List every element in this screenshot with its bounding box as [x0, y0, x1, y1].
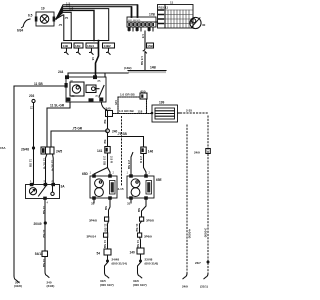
wire strip to fusebox — [156, 21, 158, 23]
seat A terminal tr — [108, 174, 112, 177]
svg-text:54/13: 54/13 — [35, 252, 43, 256]
node AVM label — [17, 14, 33, 33]
wire into left switch pin1 — [33, 148, 35, 185]
seat heater B pad dot — [136, 181, 138, 183]
connector 146 above seat B — [141, 147, 146, 154]
heater element inner box — [155, 108, 175, 119]
connector 54/13 box — [42, 251, 48, 257]
wire code small mark — [30, 106, 34, 110]
wire lead-in curve top left — [22, 19, 30, 28]
seat heater B pad circle 2 — [131, 188, 140, 197]
branch wire to seat B — [108, 137, 144, 148]
switch right element — [52, 186, 54, 192]
horn H1 right terminal — [53, 17, 56, 22]
connector 3P6/9 — [138, 233, 142, 237]
ground lead end of long left wire — [14, 276, 19, 282]
seat A long wire — [109, 200, 111, 217]
svg-text:(14B): (14B) — [124, 66, 132, 70]
svg-text:11 SB: 11 SB — [29, 159, 33, 168]
svg-text:(000 31/7): (000 31/7) — [133, 283, 147, 287]
connector 14B2 label box — [103, 43, 115, 48]
wire code — [103, 240, 107, 249]
svg-text:4-0000: 4-0000 — [187, 229, 191, 239]
svg-text:6/34: 6/34 — [17, 29, 23, 33]
connector on pin87 wire — [106, 111, 113, 117]
svg-text:2.5 SB: 2.5 SB — [127, 160, 131, 170]
svg-text:3P6/14: 3P6/14 — [87, 235, 97, 239]
svg-text:(000 31/7): (000 31/7) — [100, 283, 114, 287]
wire code above junction — [103, 120, 107, 125]
svg-text:11 SB: 11 SB — [34, 82, 43, 86]
junction dot on divider C — [207, 261, 210, 264]
connector 3P4/8 — [105, 217, 109, 221]
svg-text:.75: .75 — [64, 16, 69, 20]
svg-text:11 SB: 11 SB — [42, 230, 46, 239]
relay feed wire label — [34, 82, 43, 86]
splice 203 label — [29, 94, 35, 98]
svg-text:14B: 14B — [63, 44, 69, 48]
dotted option wire lower — [113, 113, 152, 115]
switch motor arrow — [31, 189, 35, 193]
svg-text:2.5: 2.5 — [69, 8, 74, 12]
svg-text:1.0 GR-SB: 1.0 GR-SB — [120, 93, 136, 97]
relay middle element — [86, 85, 96, 93]
wire code — [103, 224, 107, 233]
switch pin numbers — [30, 179, 53, 205]
junction node 240 — [106, 129, 110, 133]
wire code seat B long — [137, 208, 141, 213]
seat heater A resistor — [110, 181, 116, 195]
wire fusebox to ignition — [190, 21, 193, 23]
switch 24 designator — [61, 185, 66, 189]
seat B ground stub — [130, 200, 132, 203]
connector strip designator 17B — [149, 13, 156, 17]
svg-text:20/49: 20/49 — [34, 222, 42, 226]
seat B terminal tl — [129, 174, 133, 177]
svg-text:2.5 R: 2.5 R — [109, 156, 113, 164]
svg-text:2-35: 2-35 — [186, 109, 192, 113]
section divider dashed line B — [186, 125, 188, 274]
fuse box grid columns — [168, 10, 189, 28]
wire fan line 3 — [56, 9, 109, 41]
svg-text:2.5 SB: 2.5 SB — [102, 156, 106, 166]
svg-text:11 SL-GR: 11 SL-GR — [50, 104, 65, 108]
connector 54 box A — [104, 249, 111, 255]
connector 14B1 label box — [86, 43, 98, 48]
wire code below splice — [42, 206, 46, 215]
svg-text:11 SL-B: 11 SL-B — [42, 158, 46, 170]
connector 15B label box — [147, 43, 154, 48]
svg-text:14B: 14B — [75, 44, 81, 48]
relay terminal left-mid — [65, 83, 68, 88]
heater element 199 designator — [159, 101, 165, 105]
connector 141 label — [97, 149, 103, 153]
wire fan line 6 — [56, 15, 64, 41]
wire fan line 2 — [56, 7, 132, 19]
svg-text:115: 115 — [114, 100, 118, 105]
connector hook 4 — [107, 48, 111, 54]
switch motor circle — [29, 188, 36, 195]
wire connector146 to seatB pin2 — [144, 154, 147, 177]
seat A terminal tl — [92, 174, 96, 177]
connector strip pin cells — [128, 23, 154, 26]
seat B long wire — [142, 200, 147, 217]
relay pin85 wire label — [50, 104, 65, 108]
svg-text:1.0 GR-SB: 1.0 GR-SB — [119, 109, 135, 113]
svg-text:3P4/8: 3P4/8 — [89, 219, 97, 223]
connector strip mid line — [127, 21, 156, 23]
connector 140 box B — [137, 248, 144, 254]
end label seat A — [100, 279, 114, 287]
seat B terminal tr — [144, 174, 148, 177]
comb designator — [124, 66, 157, 71]
horn H1 symbol circle — [40, 15, 49, 24]
svg-text:118: 118 — [138, 110, 143, 114]
svg-text:11 SB: 11 SB — [42, 206, 46, 215]
seat B terminal br — [144, 196, 148, 199]
svg-text:240: 240 — [106, 107, 111, 111]
relay switch contact — [99, 86, 104, 98]
horn H1 left terminal — [35, 17, 38, 22]
svg-text:11: 11 — [30, 106, 34, 110]
svg-text:(31/1): (31/1) — [200, 285, 208, 289]
svg-text:R15 11: R15 11 — [159, 6, 169, 10]
wire stub to seatB pin1 — [131, 153, 133, 177]
seat B ground stub label — [127, 202, 131, 206]
long GR wire — [51, 131, 107, 147]
seat A terminal bl — [92, 196, 96, 199]
divider C ref text — [204, 228, 208, 238]
wire code along x145 — [140, 56, 144, 66]
svg-text:4-15: 4-15 — [118, 187, 124, 191]
section divider dashed line C — [207, 116, 209, 274]
wire fan line 1 thick drop — [137, 5, 139, 17]
connector strip 17B box — [127, 17, 156, 27]
connector strip pin marks — [128, 28, 131, 31]
wire to end — [45, 257, 49, 278]
svg-text:24/5: 24/5 — [56, 150, 62, 154]
svg-text:15A: 15A — [0, 146, 6, 150]
wire code seatB pin1 — [127, 160, 131, 170]
switch terminal t2 — [44, 183, 48, 186]
wire end seat A — [105, 263, 109, 278]
svg-text:11: 11 — [170, 1, 174, 5]
switch terminal t3 — [51, 183, 55, 186]
wire into left switch pin2 — [46, 154, 48, 185]
seat A ground stub — [93, 200, 95, 203]
seat A ground stub label — [91, 202, 95, 206]
wire code below 54-13 — [42, 259, 46, 268]
heater element coil lines — [155, 111, 175, 116]
end label seat B — [133, 279, 147, 287]
wire into left switch pin3 — [52, 154, 55, 185]
connector 17B0 label — [56, 150, 62, 154]
connector strip dividers — [131, 22, 151, 27]
junction node label — [112, 130, 118, 134]
relay coil frame — [70, 82, 84, 96]
svg-text:11 SB: 11 SB — [42, 259, 46, 268]
wire code — [136, 240, 140, 249]
svg-text:3P5/8: 3P5/8 — [146, 219, 154, 223]
switch right circle — [51, 192, 54, 195]
heater right lead — [178, 112, 181, 114]
svg-text:2.5 R: 2.5 R — [139, 156, 143, 164]
heater element outer box — [152, 105, 178, 122]
svg-text:14B2: 14B2 — [104, 44, 112, 48]
branch wire label — [117, 132, 127, 136]
seat heater A pad circle 1 — [95, 179, 104, 188]
svg-text:203: 203 — [29, 94, 35, 98]
wire code above 15B — [141, 34, 145, 39]
seat A pin numbers — [90, 171, 115, 175]
divider B end label — [183, 274, 187, 279]
junction 24/48 label — [112, 258, 127, 266]
wire fan line 1 — [56, 5, 138, 19]
svg-text:20/48: 20/48 — [21, 148, 29, 152]
svg-text:(000 31/6): (000 31/6) — [145, 262, 159, 266]
distribution bar — [64, 40, 109, 42]
svg-text:31: 31 — [127, 202, 131, 206]
svg-text:199: 199 — [159, 101, 165, 105]
relay feed wire from left — [14, 85, 66, 87]
connector hook 1 — [65, 48, 69, 54]
horn H1 box — [36, 12, 54, 26]
seat heater B pad circle 1 — [131, 179, 140, 188]
relay 244 box — [66, 77, 106, 102]
junction dot 23/48 — [140, 254, 142, 260]
svg-text:65E: 65E — [156, 178, 162, 182]
option connector box — [140, 93, 147, 99]
end label — [47, 281, 55, 289]
svg-text:11 SB: 11 SB — [135, 224, 139, 233]
seat heater A pad circle 2 — [95, 188, 104, 197]
left edge ref text — [0, 146, 6, 150]
horn H1 designator 19 — [41, 7, 45, 11]
wire below 3P4/8 — [108, 221, 109, 233]
terminal comb row — [128, 70, 166, 72]
inline connector row label 20/48 — [21, 148, 29, 152]
divider A ref text bottom — [118, 187, 124, 191]
svg-text:(000 31/14): (000 31/14) — [112, 262, 127, 266]
seat heater A box — [90, 176, 117, 198]
svg-text:6.5: 6.5 — [28, 14, 33, 18]
fuse box 11 outer — [158, 5, 194, 29]
relay pin87 wire — [101, 102, 107, 129]
long GR wire label — [72, 127, 83, 131]
svg-text:650: 650 — [141, 90, 146, 94]
connector 3P5/8 — [140, 217, 144, 221]
svg-text:3-0000: 3-0000 — [204, 228, 208, 238]
connector 54/13 label — [35, 252, 43, 256]
splice dot 20/49 — [44, 221, 47, 224]
svg-text:24/9: 24/9 — [182, 285, 188, 289]
relay coil inner — [76, 86, 79, 89]
divider C end label — [204, 274, 208, 279]
connector hook 2 — [77, 48, 81, 54]
wire fork to seatA pin1 — [94, 168, 108, 177]
wire code seatA pin1 — [102, 156, 106, 166]
ignition switch circle — [190, 17, 201, 28]
seat heater B box — [127, 176, 154, 198]
relay pin numbers — [70, 79, 101, 98]
svg-text:16: 16 — [91, 57, 95, 61]
wire below 3P6/14 — [107, 237, 109, 249]
wire code seatA pin2 — [109, 156, 113, 164]
wire fan line 2 thick drop — [131, 7, 133, 17]
svg-text:11 SL-R: 11 SL-R — [50, 160, 54, 172]
wire below 3P6/9 — [140, 237, 141, 248]
wire code x33 — [29, 159, 33, 168]
relay terminal top-left — [65, 75, 69, 79]
heater left terminal — [151, 112, 154, 115]
wire code seat A long — [104, 206, 108, 211]
splice 203 circle — [32, 99, 35, 102]
svg-text:1.5: 1.5 — [141, 34, 145, 39]
svg-text:23/7: 23/7 — [195, 261, 201, 265]
wire below 3P5/8 — [140, 221, 142, 233]
connector strip pin stubs — [129, 27, 153, 31]
svg-text:65D: 65D — [82, 172, 89, 176]
wire code seatB pin2 — [139, 156, 143, 164]
svg-text:146: 146 — [148, 150, 154, 154]
wire code x47 — [42, 158, 46, 170]
relay middle link — [96, 88, 99, 90]
junction 23/48 label — [145, 258, 159, 266]
svg-text:(24/3): (24/3) — [47, 284, 55, 288]
ignition label 30 — [202, 23, 206, 27]
ignition switch inner — [192, 19, 196, 23]
svg-text:141: 141 — [97, 149, 103, 153]
connector 3P6/14 — [104, 233, 108, 237]
svg-text:15B: 15B — [147, 44, 153, 48]
wire trunk to relay — [96, 41, 99, 78]
svg-text:17B: 17B — [149, 13, 156, 17]
section divider dashed line A — [121, 117, 123, 187]
relay 244 designator — [58, 70, 64, 74]
fuse box left column marks — [159, 10, 164, 24]
svg-text:14B1: 14B1 — [87, 44, 95, 48]
switch terminal t1 — [30, 183, 34, 186]
seat heater 65E designator — [156, 178, 162, 182]
ground end label — [14, 281, 22, 289]
connector 15B on wire from strip — [144, 31, 146, 48]
switch output wire down — [44, 200, 46, 251]
svg-text:(31/8): (31/8) — [14, 284, 22, 288]
splice dot on wire x33 — [32, 146, 35, 149]
fuse box divider — [164, 5, 166, 29]
seat A terminal br — [108, 196, 112, 199]
connector 17B0 box — [41, 147, 54, 154]
relay pin85 wire — [47, 102, 70, 147]
wire end seat B — [138, 263, 142, 278]
wire connector141 to seatA pin2 — [108, 153, 111, 176]
relay coil circle — [72, 85, 80, 93]
connector hook 3 — [90, 48, 94, 54]
fuse box header text — [159, 1, 174, 10]
svg-text:30: 30 — [202, 23, 206, 27]
relay middle contact circle — [92, 87, 96, 91]
fan wire code labels — [58, 1, 74, 27]
seat heater B resistor — [146, 181, 152, 195]
dotted option wire upper — [118, 96, 140, 98]
dotted option drop — [146, 99, 148, 114]
long left wire down — [13, 86, 15, 276]
seat B terminal bl — [129, 196, 133, 199]
svg-text:3A: 3A — [61, 185, 66, 189]
relay terminal bottom-left — [67, 98, 71, 102]
switch 24 box — [26, 185, 60, 199]
connector 141 above seat A — [105, 147, 110, 154]
wire 15B continues — [144, 53, 146, 71]
terminal comb teeth — [129, 71, 165, 73]
svg-text:3P6/9: 3P6/9 — [144, 235, 152, 239]
wire fan line 5 — [56, 12, 71, 40]
horn H1 cross — [42, 16, 48, 22]
relay terminal bottom-centre — [89, 98, 94, 101]
ignition switch lever — [191, 18, 200, 28]
bus wire above relay — [68, 73, 128, 77]
svg-text:54: 54 — [97, 252, 101, 256]
junction dot 24/48 — [107, 255, 109, 260]
divider B ref text — [187, 229, 191, 239]
seat B pin numbers — [127, 171, 151, 175]
svg-text:.75: .75 — [58, 23, 63, 27]
option connector pin mark — [141, 94, 143, 97]
seat heater A pad dot — [99, 181, 101, 183]
switch contact diagonal — [39, 187, 46, 197]
wire fan line 4 — [56, 10, 94, 40]
splice 20/49 label — [34, 222, 42, 226]
connector strip top text — [128, 20, 142, 22]
svg-text:14B: 14B — [150, 66, 157, 70]
connector on divider C — [206, 149, 211, 154]
wire code x55 — [50, 160, 54, 172]
fuse box grid rows — [165, 10, 193, 24]
connector 146 label — [148, 150, 154, 154]
wire splice down — [33, 103, 35, 148]
dashed wire to divider — [181, 112, 209, 114]
connector 14B label box 1 — [62, 43, 72, 48]
trunk wire code — [91, 57, 95, 61]
connector 14B label box 2 — [74, 43, 83, 48]
svg-text:140: 140 — [130, 251, 136, 255]
svg-text:19: 19 — [41, 7, 45, 11]
svg-text:1.5 SB: 1.5 SB — [140, 56, 144, 66]
svg-text:.75 SB: .75 SB — [117, 132, 127, 136]
relay terminal bottom-right — [99, 98, 103, 102]
relay terminal top-mid — [93, 75, 97, 79]
wire code — [135, 224, 139, 233]
svg-text:11 SB: 11 SB — [103, 240, 107, 249]
svg-text:MPL BB NPL: MPL BB NPL — [128, 20, 142, 22]
switch bottom terminal — [43, 197, 47, 200]
svg-text:.75 GR: .75 GR — [72, 127, 83, 131]
wire junction down — [107, 133, 109, 147]
svg-text:11 SB: 11 SB — [103, 224, 107, 233]
connector 15B hook — [143, 48, 146, 53]
dotted option left leg — [117, 97, 119, 114]
svg-text:24/9: 24/9 — [194, 151, 200, 155]
seat heater 65D designator — [82, 172, 89, 176]
svg-text:244: 244 — [58, 70, 64, 74]
svg-text:31: 31 — [91, 202, 95, 206]
wire code on junction drop — [103, 140, 107, 145]
